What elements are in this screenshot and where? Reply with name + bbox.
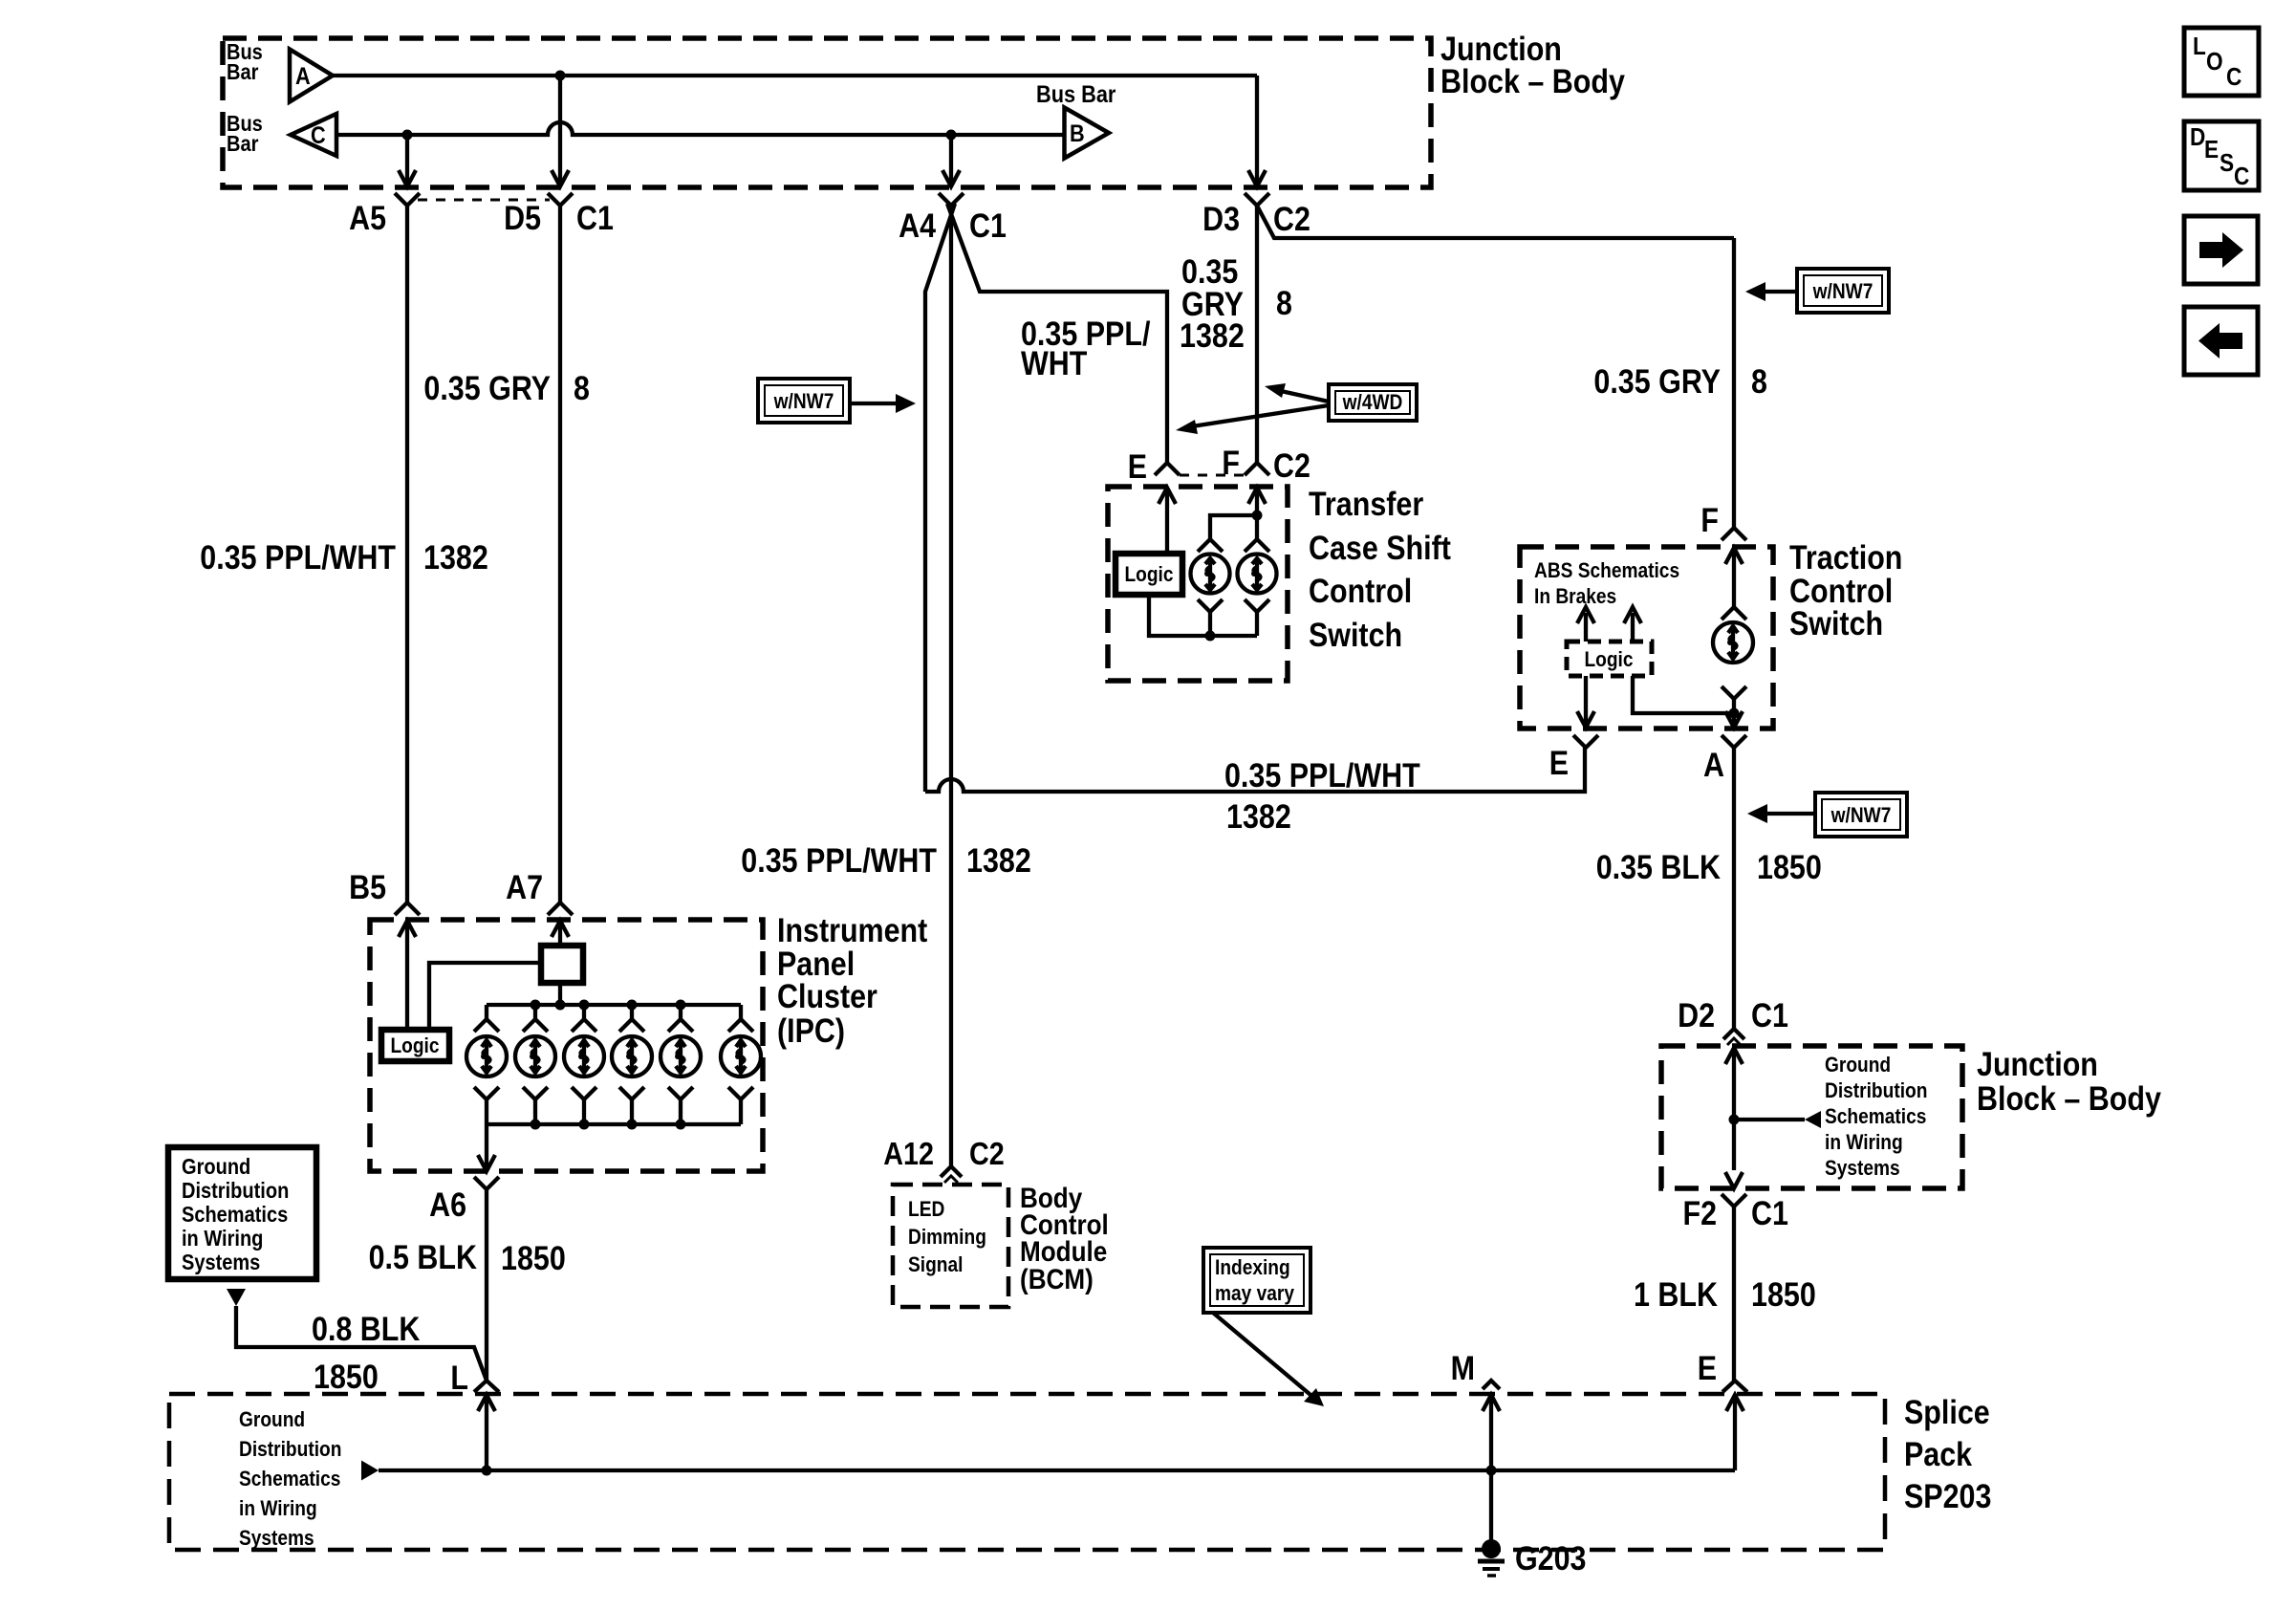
IPC logic box bbox=[381, 1030, 449, 1061]
svg-text:D5: D5 bbox=[504, 200, 541, 237]
svg-text:F: F bbox=[1222, 445, 1240, 482]
svg-text:1850: 1850 bbox=[1751, 1276, 1816, 1314]
splice left arrow triangle bbox=[361, 1461, 379, 1481]
svg-text:C1: C1 bbox=[1751, 1195, 1788, 1232]
svg-text:Bar: Bar bbox=[227, 131, 258, 156]
splice pack dashed box bbox=[169, 1394, 1885, 1550]
svg-text:1382: 1382 bbox=[966, 842, 1031, 880]
IPC A6 exit wire and arrow bbox=[478, 1124, 495, 1171]
connector L bbox=[450, 1360, 499, 1397]
ground distribution solid box (left) bbox=[168, 1147, 316, 1279]
instrument panel cluster dashed box bbox=[370, 920, 763, 1171]
svg-text:A5: A5 bbox=[349, 200, 386, 237]
svg-text:Distribution: Distribution bbox=[182, 1178, 289, 1203]
IPC lamp column 3 bbox=[564, 1005, 604, 1124]
svg-text:w/4WD: w/4WD bbox=[1342, 390, 1403, 414]
splice L entry arrow bbox=[478, 1395, 495, 1470]
arrow down into edge at A4 bbox=[942, 170, 960, 186]
wire D3 jog and horizontal to GRY drop bbox=[1257, 206, 1734, 238]
transfer lamp2 connector bottom bbox=[1245, 599, 1269, 612]
svg-text:w/NW7: w/NW7 bbox=[1830, 803, 1892, 827]
svg-text:C: C bbox=[2234, 162, 2249, 190]
svg-text:D3: D3 bbox=[1202, 201, 1240, 238]
svg-text:0.35 GRY: 0.35 GRY bbox=[1593, 363, 1721, 401]
label LED Dimming Signal bbox=[908, 1197, 986, 1276]
svg-text:Dimming: Dimming bbox=[908, 1225, 986, 1249]
label 0.35 PPL/ WHT (E wire) bbox=[1021, 315, 1151, 382]
svg-text:8: 8 bbox=[1751, 363, 1767, 401]
svg-text:B: B bbox=[1070, 120, 1085, 147]
connector E (transfer) bbox=[1128, 448, 1180, 486]
label 1 BLK / 1850 bbox=[1634, 1276, 1816, 1314]
label 0.35 PPL/WHT / 1382 (A5 wire) bbox=[200, 539, 488, 577]
wire A4 drop inside box bbox=[949, 135, 953, 185]
connector F2 / C1 bbox=[1683, 1194, 1788, 1232]
svg-text:Ground: Ground bbox=[182, 1154, 250, 1179]
svg-text:A6: A6 bbox=[429, 1186, 466, 1224]
svg-text:1382: 1382 bbox=[1180, 317, 1245, 355]
svg-text:Traction: Traction bbox=[1789, 539, 1902, 577]
IPC lamp column 5 bbox=[661, 1005, 701, 1124]
svg-text:D2: D2 bbox=[1678, 997, 1715, 1034]
connector E (traction) bbox=[1549, 735, 1598, 782]
bus bar A label bbox=[227, 39, 263, 84]
svg-text:1850: 1850 bbox=[314, 1359, 379, 1396]
svg-text:Junction: Junction bbox=[1977, 1046, 2098, 1083]
transfer logic box bbox=[1116, 554, 1182, 595]
w/NW7 right upper arrow bbox=[1745, 282, 1797, 301]
IPC lamp column 4 bbox=[612, 1005, 652, 1124]
IPC resistor box bbox=[541, 946, 583, 983]
traction logic dashed box bbox=[1567, 642, 1652, 676]
w/4WD lower arrow bbox=[1176, 405, 1329, 434]
wire 1 BLK bbox=[1732, 1207, 1736, 1381]
BR junction dot bbox=[1729, 1115, 1740, 1125]
svg-text:(IPC): (IPC) bbox=[777, 1012, 845, 1050]
svg-text:w/NW7: w/NW7 bbox=[1812, 279, 1874, 303]
svg-text:C1: C1 bbox=[576, 200, 614, 237]
label Junction Block - Body (bottom) bbox=[1977, 1046, 2161, 1118]
connector A5 bbox=[349, 193, 420, 237]
transfer E entry arrow up bbox=[1159, 488, 1176, 504]
traction lamp connector top bbox=[1722, 607, 1746, 620]
IPC resistor to bus wire bbox=[558, 983, 562, 1005]
connector A (traction) bbox=[1703, 735, 1746, 784]
IPC logic to resistor wire bbox=[429, 963, 541, 1030]
svg-text:F: F bbox=[1700, 502, 1719, 539]
label Splice Pack SP203 bbox=[1904, 1394, 1991, 1515]
transfer lamp2 bbox=[1238, 555, 1277, 594]
transfer F entry arrow up bbox=[1248, 488, 1266, 504]
junction dot on wire C at A5 bbox=[402, 130, 413, 141]
svg-text:Logic: Logic bbox=[1585, 647, 1634, 671]
svg-text:in Wiring: in Wiring bbox=[239, 1496, 317, 1520]
connector B5 bbox=[349, 869, 420, 915]
wire D5 to A7 vertical bbox=[558, 206, 562, 903]
svg-text:E: E bbox=[2204, 135, 2219, 163]
transfer bottom bus bbox=[1149, 595, 1257, 636]
left arrow box bbox=[2184, 307, 2258, 375]
IPC B5 entry arrow bbox=[399, 921, 416, 1030]
ground G203 bbox=[1478, 1539, 1587, 1577]
transfer lamp1 connector top bbox=[1198, 539, 1223, 552]
w/4WD upper arrow bbox=[1265, 383, 1329, 402]
wire GRY vertical right bbox=[1732, 238, 1736, 529]
connector A6 bbox=[429, 1177, 499, 1224]
traction lamp connector bottom bbox=[1722, 686, 1746, 699]
svg-text:A7: A7 bbox=[506, 869, 543, 906]
wire 0.8 BLK bbox=[236, 1306, 487, 1381]
svg-text:A: A bbox=[295, 63, 311, 90]
svg-text:may vary: may vary bbox=[1215, 1281, 1295, 1305]
label Body Control Module (BCM) bbox=[1020, 1183, 1109, 1295]
junction block body (bottom right) dashed box bbox=[1661, 1046, 1962, 1188]
svg-text:0.5 BLK: 0.5 BLK bbox=[369, 1239, 477, 1276]
transfer lamp1 connector bottom bbox=[1198, 599, 1223, 612]
w/NW7 box left bbox=[758, 379, 850, 423]
label Junction Block - Body (top) bbox=[1440, 31, 1625, 100]
traction control switch dashed box bbox=[1520, 547, 1773, 729]
label Transfer Case Shift Control Switch bbox=[1309, 486, 1451, 654]
IPC A7 entry arrow bbox=[552, 921, 569, 946]
w/NW7 box right upper bbox=[1797, 269, 1889, 313]
BR junction exit arrow down bbox=[1725, 1172, 1743, 1188]
traction lamp to junction bbox=[1732, 699, 1736, 724]
IPC top bus bbox=[487, 1003, 741, 1007]
splice L dot bbox=[482, 1466, 492, 1476]
svg-text:0.35 GRY: 0.35 GRY bbox=[423, 370, 551, 407]
BR junction entry arrow up bbox=[1725, 1048, 1743, 1170]
svg-text:Block – Body: Block – Body bbox=[1977, 1080, 2161, 1118]
right arrow box bbox=[2184, 216, 2258, 284]
indexing arrow bbox=[1213, 1313, 1324, 1406]
splice M dot bbox=[1486, 1466, 1497, 1476]
label 0.35 BLK / 1850 bbox=[1596, 849, 1822, 886]
bus bar C label bbox=[227, 111, 263, 156]
svg-text:Case Shift: Case Shift bbox=[1309, 530, 1451, 567]
svg-text:0.35 BLK: 0.35 BLK bbox=[1596, 849, 1721, 886]
bus bar A triangle bbox=[290, 50, 333, 102]
splice E entry arrow bbox=[1726, 1395, 1744, 1470]
svg-text:0.35 PPL/WHT: 0.35 PPL/WHT bbox=[1224, 757, 1420, 794]
svg-text:A4: A4 bbox=[899, 207, 936, 245]
arrow down into edge at D3 bbox=[1248, 170, 1266, 186]
ground box down triangle bbox=[227, 1289, 246, 1306]
connector D2 / C1 bbox=[1678, 997, 1788, 1045]
junction block body (top) dashed box bbox=[223, 38, 1431, 187]
IPC top bus dots bbox=[531, 1000, 541, 1011]
svg-text:1850: 1850 bbox=[1757, 849, 1822, 886]
body control module dashed box bbox=[893, 1185, 1008, 1307]
svg-text:1382: 1382 bbox=[1226, 798, 1291, 836]
svg-text:Splice: Splice bbox=[1904, 1394, 1990, 1431]
wire D5 drop inside box bbox=[558, 76, 562, 185]
svg-text:Distribution: Distribution bbox=[1825, 1078, 1927, 1102]
svg-text:SP203: SP203 bbox=[1904, 1478, 1991, 1515]
svg-text:In Brakes: In Brakes bbox=[1534, 584, 1616, 608]
svg-text:in Wiring: in Wiring bbox=[182, 1226, 263, 1251]
svg-text:B5: B5 bbox=[349, 869, 386, 906]
svg-text:8: 8 bbox=[574, 370, 590, 407]
svg-text:Switch: Switch bbox=[1789, 605, 1883, 642]
svg-text:LED: LED bbox=[908, 1197, 944, 1221]
label 0.35 GRY 1382 stack (D3 wire) bbox=[1180, 253, 1292, 355]
svg-text:Instrument: Instrument bbox=[777, 912, 928, 949]
BR junction arrow line to text bbox=[1734, 1111, 1821, 1128]
svg-text:O: O bbox=[2206, 47, 2223, 76]
wire A4 to BCM vertical bbox=[949, 206, 953, 1166]
IPC bottom bus bbox=[487, 1122, 741, 1126]
wire traction A down bbox=[1732, 748, 1736, 1029]
arrow down into edge at D5 bbox=[552, 170, 569, 186]
w/NW7 right lower arrow bbox=[1747, 804, 1815, 823]
transfer E internal wire bbox=[1165, 488, 1169, 554]
svg-text:C2: C2 bbox=[1273, 447, 1310, 485]
svg-text:G203: G203 bbox=[1515, 1540, 1587, 1577]
svg-text:ABS Schematics: ABS Schematics bbox=[1534, 558, 1679, 582]
wire A6 down to splice bbox=[485, 1189, 488, 1381]
splice M wire to ground bbox=[1489, 1470, 1493, 1547]
transfer branch to lamp1 bbox=[1210, 515, 1257, 538]
svg-text:Indexing: Indexing bbox=[1215, 1255, 1290, 1279]
arrow down into edge at A5 bbox=[399, 170, 416, 186]
connector A7 bbox=[506, 869, 573, 915]
wire A4 split right diagonal to E drop bbox=[947, 204, 1167, 463]
svg-text:Transfer: Transfer bbox=[1309, 486, 1424, 523]
transfer junction dot bbox=[1252, 511, 1263, 521]
label Traction Control Switch bbox=[1789, 539, 1902, 642]
thin dashed connector line E to F bbox=[1180, 474, 1246, 477]
traction logic up arrow 1 bbox=[1577, 607, 1594, 642]
svg-text:Ground: Ground bbox=[239, 1407, 305, 1431]
transfer F internal wire bbox=[1255, 488, 1259, 538]
connector F / C2 (transfer) bbox=[1222, 445, 1310, 485]
IPC lamp column 6 bbox=[721, 1005, 761, 1124]
junction dot on wire C at A4 bbox=[946, 130, 957, 141]
svg-text:Signal: Signal bbox=[908, 1252, 963, 1276]
traction lamp bbox=[1713, 622, 1753, 663]
indexing may vary box bbox=[1203, 1248, 1310, 1313]
svg-text:Systems: Systems bbox=[1825, 1156, 1900, 1180]
wire A vertical drop at D3 bbox=[1255, 76, 1259, 185]
svg-text:Logic: Logic bbox=[1125, 562, 1174, 586]
svg-text:C2: C2 bbox=[1273, 201, 1310, 238]
svg-text:C: C bbox=[2226, 62, 2242, 91]
svg-text:Schematics: Schematics bbox=[239, 1467, 340, 1490]
splice M entry arrow bbox=[1483, 1395, 1500, 1470]
svg-text:E: E bbox=[1128, 448, 1147, 486]
svg-text:1850: 1850 bbox=[501, 1240, 566, 1277]
wire A horizontal bbox=[333, 74, 1257, 77]
bus bar B triangle bbox=[1065, 108, 1110, 159]
svg-text:D: D bbox=[2190, 122, 2205, 151]
traction logic down wire and arrow bbox=[1577, 676, 1594, 728]
svg-text:0.35 PPL/WHT: 0.35 PPL/WHT bbox=[741, 842, 937, 880]
traction junction dot bbox=[1729, 708, 1740, 719]
svg-text:Schematics: Schematics bbox=[1825, 1104, 1926, 1128]
wire A5 to B5 vertical bbox=[405, 206, 409, 903]
svg-text:Distribution: Distribution bbox=[239, 1437, 341, 1461]
thin dashed connector line A5 to D5 bbox=[418, 199, 550, 202]
svg-text:C2: C2 bbox=[969, 1136, 1005, 1171]
svg-text:L: L bbox=[2193, 32, 2206, 60]
IPC lamp column 2 bbox=[515, 1005, 555, 1124]
svg-text:Ground: Ground bbox=[1825, 1053, 1891, 1077]
svg-text:Systems: Systems bbox=[239, 1526, 314, 1550]
label ABS Schematics In Brakes bbox=[1534, 558, 1679, 608]
svg-text:S: S bbox=[2220, 148, 2234, 177]
DESC box bbox=[2184, 121, 2259, 190]
svg-text:0.35 PPL/WHT: 0.35 PPL/WHT bbox=[200, 539, 396, 577]
svg-text:E: E bbox=[1698, 1350, 1717, 1387]
bus bar C triangle bbox=[291, 114, 336, 156]
svg-text:Control: Control bbox=[1309, 573, 1412, 610]
svg-text:A: A bbox=[1703, 747, 1724, 784]
splice bus bbox=[379, 1469, 1735, 1472]
svg-text:(BCM): (BCM) bbox=[1020, 1264, 1094, 1295]
label Ground Distribution Schematics in Wiring Systems (splice) bbox=[239, 1407, 341, 1550]
svg-text:1382: 1382 bbox=[423, 539, 488, 577]
svg-text:Bar: Bar bbox=[227, 59, 258, 84]
label Ground Distribution Schematics in Wiring Systems (BR) bbox=[1825, 1053, 1927, 1180]
svg-text:WHT: WHT bbox=[1021, 345, 1087, 382]
wire C horizontal with hop over D5 wire bbox=[336, 122, 1064, 135]
svg-text:Block – Body: Block – Body bbox=[1440, 63, 1625, 100]
traction branch to logic bbox=[1633, 676, 1734, 713]
transfer lamp2 connector top bbox=[1245, 539, 1269, 552]
svg-text:Logic: Logic bbox=[391, 1033, 440, 1057]
connector F (traction) bbox=[1700, 502, 1746, 540]
transfer case shift control switch dashed box bbox=[1108, 487, 1288, 681]
svg-text:1 BLK: 1 BLK bbox=[1634, 1276, 1718, 1314]
wire PPL/WHT horizontal to traction E with hop bbox=[925, 748, 1585, 792]
svg-text:Cluster: Cluster bbox=[777, 978, 877, 1015]
svg-text:in Wiring: in Wiring bbox=[1825, 1130, 1903, 1154]
svg-text:C1: C1 bbox=[969, 207, 1007, 245]
traction F entry arrow up bbox=[1725, 548, 1743, 607]
wire D3 to F vertical bbox=[1255, 206, 1259, 463]
svg-text:A12: A12 bbox=[883, 1136, 934, 1171]
label Instrument Panel Cluster (IPC) bbox=[777, 912, 928, 1050]
wire A4 split left diagonal bbox=[925, 204, 955, 792]
connector A12 / C2 bbox=[883, 1136, 1004, 1183]
svg-text:F2: F2 bbox=[1683, 1195, 1718, 1232]
w/NW7 box right lower bbox=[1815, 793, 1907, 837]
svg-text:8: 8 bbox=[1276, 285, 1292, 322]
svg-text:Switch: Switch bbox=[1309, 617, 1402, 654]
label 0.35 PPL/WHT / 1382 (BCM wire) bbox=[741, 842, 1031, 880]
svg-text:C1: C1 bbox=[1751, 997, 1788, 1034]
connector M bbox=[1451, 1350, 1500, 1389]
svg-text:L: L bbox=[450, 1360, 468, 1397]
transfer lamp2 to bus bbox=[1255, 612, 1259, 636]
svg-text:Schematics: Schematics bbox=[182, 1202, 288, 1227]
w/4WD box bbox=[1329, 384, 1417, 421]
connector E (splice) bbox=[1698, 1350, 1747, 1392]
svg-text:w/NW7: w/NW7 bbox=[773, 389, 834, 413]
LOC box bbox=[2184, 28, 2259, 96]
wire A5 drop inside box bbox=[405, 135, 409, 185]
connector D3 / C2 bbox=[1202, 193, 1310, 238]
transfer lamp1 bbox=[1191, 555, 1230, 594]
svg-text:C: C bbox=[311, 122, 326, 149]
svg-text:0.8 BLK: 0.8 BLK bbox=[312, 1311, 420, 1348]
IPC lamp column 1 bbox=[466, 1005, 507, 1124]
label 0.35 GRY / 8 (D5 wire) bbox=[423, 370, 590, 407]
svg-text:Pack: Pack bbox=[1904, 1436, 1973, 1473]
svg-text:E: E bbox=[1549, 745, 1569, 782]
connector A4 / C1 bbox=[899, 193, 1007, 245]
traction A exit arrow down bbox=[1725, 711, 1743, 728]
svg-text:Systems: Systems bbox=[182, 1250, 260, 1274]
traction logic up arrow 2 bbox=[1624, 607, 1641, 642]
transfer lamp1 to bus bbox=[1208, 612, 1212, 636]
w/NW7 left arrow bbox=[850, 394, 916, 413]
svg-text:Bus Bar: Bus Bar bbox=[1036, 81, 1116, 108]
connector D5 / C1 bbox=[504, 193, 614, 237]
svg-text:M: M bbox=[1451, 1350, 1475, 1387]
transfer bus junction dot bbox=[1205, 631, 1216, 642]
junction dot on wire A at D5 bbox=[555, 71, 566, 81]
IPC bottom bus dots bbox=[531, 1120, 541, 1130]
label 0.5 BLK / 1850 bbox=[369, 1239, 566, 1277]
label 0.35 GRY / 8 (right wire) bbox=[1593, 363, 1767, 401]
